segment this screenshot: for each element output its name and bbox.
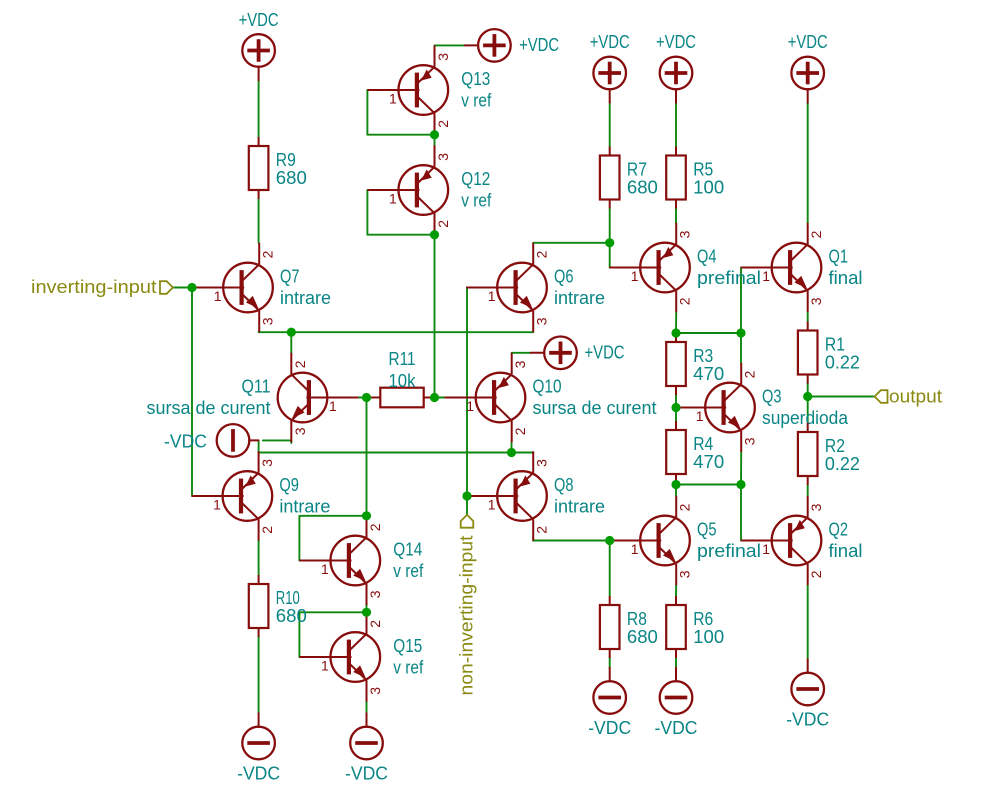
wire Q11 base to R11 (358, 397, 371, 399)
wire inverting-input port to node (173, 287, 192, 289)
Q6 reference and value labels (554, 267, 605, 309)
resistor R6 (666, 596, 686, 658)
Q1 reference and value labels (829, 247, 863, 289)
wire Q15 emitter to -VDC (366, 702, 368, 714)
transistor Q14 (299, 516, 380, 605)
resistor R7 (600, 147, 620, 209)
power symbol -VDC (593, 668, 626, 714)
Q4 pin numbers (631, 230, 693, 305)
svg-text:1: 1 (321, 658, 329, 674)
svg-text:3: 3 (534, 459, 550, 467)
svg-text:R10: R10 (276, 588, 300, 608)
wire Q15 base loop (299, 612, 366, 657)
wire node to Q2 base (740, 485, 742, 541)
svg-text:prefinal: prefinal (697, 541, 761, 561)
svg-text:1: 1 (696, 408, 704, 424)
svg-text:680: 680 (276, 606, 307, 626)
svg-text:Q7: Q7 (280, 267, 300, 287)
wire Q12 base loop (367, 190, 434, 235)
wire Q3 emitter down (740, 452, 742, 484)
wire R6 to -VDC (675, 657, 677, 668)
R4 labels (693, 434, 724, 472)
Q14 reference and value labels (393, 540, 424, 582)
Q12 pin numbers (389, 153, 451, 228)
svg-text:0.22: 0.22 (825, 454, 860, 474)
svg-text:1: 1 (389, 191, 397, 207)
svg-text:+VDC: +VDC (519, 35, 559, 55)
svg-text:Q1: Q1 (829, 247, 849, 267)
svg-text:3: 3 (435, 53, 451, 61)
junction node Q3 emitter (736, 480, 745, 489)
svg-text:3: 3 (534, 317, 550, 325)
wire R11 to Q10 base (433, 397, 445, 399)
svg-text:2: 2 (259, 526, 275, 534)
svg-text:Q15: Q15 (393, 636, 422, 656)
svg-text:v ref: v ref (393, 658, 424, 678)
Q14 pin numbers (321, 523, 383, 598)
svg-text:3: 3 (808, 503, 824, 511)
svg-text:2: 2 (808, 230, 824, 238)
svg-text:+VDC: +VDC (585, 342, 625, 362)
svg-text:3: 3 (292, 427, 308, 435)
svg-text:Q10: Q10 (533, 377, 562, 397)
resistor R8 (600, 596, 620, 658)
R7 labels (627, 160, 658, 198)
svg-text:3: 3 (677, 570, 693, 578)
wire +VDC to R7 (609, 103, 611, 147)
wire R8 to -VDC (609, 657, 611, 668)
wire R7 to node (609, 209, 611, 243)
svg-text:3: 3 (435, 153, 451, 161)
power symbol +VDC (465, 29, 511, 62)
hierarchical port output (875, 390, 888, 403)
junction node R11 right (430, 393, 439, 402)
R1 labels (825, 335, 860, 373)
svg-text:2: 2 (435, 220, 451, 228)
wire Q9 collector to R10 (258, 541, 260, 575)
svg-text:2: 2 (367, 620, 383, 628)
svg-text:final: final (829, 541, 863, 561)
svg-text:2: 2 (808, 570, 824, 578)
svg-text:1: 1 (389, 91, 397, 107)
wire Q6 collector to R7 node (533, 242, 610, 244)
svg-text:1: 1 (214, 288, 222, 304)
Q7 pin numbers (214, 250, 276, 325)
svg-text:2: 2 (292, 360, 308, 368)
wire R11 left node down to Q14 collector (366, 398, 368, 516)
hierarchical port inverting-input (160, 281, 173, 294)
power symbol +VDC (791, 57, 824, 103)
power symbol +VDC (660, 57, 693, 103)
Q9 reference and value labels (279, 475, 330, 517)
R3 labels (693, 346, 724, 384)
wire Q13 base loop (367, 90, 434, 135)
R9 labels (276, 150, 307, 188)
svg-text:intrare: intrare (554, 288, 605, 308)
junction node R4 bottom (671, 480, 680, 489)
wire Q6 base column to Q8 base node (466, 288, 468, 497)
Q1 pin numbers (762, 230, 824, 305)
power symbol +VDC (593, 57, 626, 103)
power symbol -VDC (217, 424, 259, 457)
svg-text:3: 3 (367, 590, 383, 598)
wire Q13 collector to Q12 emitter (434, 135, 436, 146)
Q12 reference and value labels (461, 169, 492, 211)
svg-text:2: 2 (534, 250, 550, 258)
svg-text:-VDC: -VDC (786, 710, 829, 730)
svg-text:R6: R6 (693, 609, 713, 629)
wire Q5 emitter to R6 (675, 585, 677, 596)
wire -VDC to Q11 emitter (263, 440, 292, 443)
svg-text:v ref: v ref (461, 191, 492, 211)
power symbol -VDC (660, 668, 693, 714)
wire node to Q11 collector (290, 332, 292, 353)
wire R10 to -VDC (258, 636, 260, 713)
transistor Q2 (741, 496, 822, 585)
wire Q5 base node to R8 (609, 541, 611, 597)
Q13 pin numbers (389, 53, 451, 128)
svg-text:+VDC: +VDC (656, 32, 696, 52)
svg-text:Q5: Q5 (697, 520, 717, 540)
wire Q2 collector to -VDC (807, 585, 809, 659)
svg-text:2: 2 (435, 120, 451, 128)
svg-text:3: 3 (742, 437, 758, 445)
transistor Q15 (299, 612, 380, 701)
wire output node to port (808, 396, 875, 398)
svg-text:680: 680 (627, 178, 658, 198)
Q5 pin numbers (631, 503, 693, 578)
svg-text:intrare: intrare (279, 497, 330, 517)
R2 labels (825, 436, 860, 474)
transistor Q7 (192, 243, 273, 332)
svg-text:10k: 10k (389, 371, 417, 391)
svg-text:Q2: Q2 (829, 520, 849, 540)
svg-text:inverting-input: inverting-input (31, 277, 157, 297)
wire Q10 collector to node (511, 442, 513, 452)
svg-text:1: 1 (488, 497, 496, 513)
transistor Q13 (367, 45, 448, 134)
svg-text:v ref: v ref (393, 561, 424, 581)
transistor Q1 (741, 223, 822, 312)
wire +VDC to Q1 collector (807, 103, 809, 223)
svg-text:1: 1 (631, 541, 639, 557)
junction node Q5 base (605, 536, 614, 545)
svg-text:Q4: Q4 (697, 247, 717, 267)
resistor R1 (798, 322, 818, 384)
svg-text:1: 1 (213, 497, 221, 513)
resistor R9 (249, 137, 269, 199)
Q4 reference and value labels (697, 247, 761, 289)
svg-text:R1: R1 (825, 335, 845, 355)
svg-text:1: 1 (329, 398, 337, 414)
svg-text:100: 100 (693, 178, 724, 198)
wire Q4 collector to R3 node (675, 312, 677, 333)
junction node R7/Q4 base (605, 238, 614, 247)
svg-text:non-inverting-input: non-inverting-input (457, 536, 477, 696)
junction node Q10 collector (507, 448, 516, 457)
svg-text:R9: R9 (276, 150, 296, 170)
power symbol -VDC (350, 713, 383, 759)
svg-text:Q12: Q12 (461, 169, 490, 189)
wire Q14 base loop (299, 516, 366, 561)
wire R1 to R2 (807, 383, 809, 423)
svg-text:final: final (829, 268, 863, 288)
transistor Q12 (367, 145, 448, 234)
Q3 reference and value labels (762, 387, 849, 429)
svg-text:superdioda: superdioda (762, 408, 849, 428)
transistor Q5 (609, 496, 690, 585)
svg-text:intrare: intrare (554, 497, 605, 517)
transistor Q6 (466, 243, 547, 332)
svg-text:v ref: v ref (461, 91, 492, 111)
svg-text:R5: R5 (693, 160, 713, 180)
transistor Q3 (674, 363, 755, 452)
Q15 pin numbers (321, 620, 383, 695)
power symbol -VDC (791, 659, 824, 705)
wire node to non-inverting-input port (466, 496, 468, 515)
svg-text:1: 1 (762, 268, 770, 284)
junction node Q15 collector (362, 608, 371, 617)
wire R3 to node (675, 395, 677, 408)
wire Q8 collector to Q5 base node (533, 540, 610, 542)
junction node Q13 collector (430, 130, 439, 139)
svg-text:470: 470 (693, 364, 724, 384)
wire R4 node to Q3 emitter node (676, 484, 741, 486)
hierarchical port non-inverting-input (461, 515, 474, 528)
resistor R2 (798, 423, 818, 485)
wire R4 to Q5 collector (675, 483, 677, 496)
svg-text:Q3: Q3 (762, 387, 782, 407)
svg-text:+VDC: +VDC (590, 32, 630, 52)
svg-text:R4: R4 (693, 434, 713, 454)
junction node Q1 base (736, 328, 745, 337)
Q10 reference and value labels (533, 377, 657, 419)
svg-text:Q13: Q13 (461, 69, 490, 89)
svg-text:3: 3 (677, 230, 693, 238)
Q7 reference and value labels (280, 267, 331, 309)
Q8 reference and value labels (554, 475, 605, 517)
wire node to R4 (675, 408, 677, 422)
transistor Q10 (445, 353, 526, 442)
svg-text:3: 3 (808, 297, 824, 305)
transistor Q8 (466, 451, 547, 540)
svg-text:1: 1 (466, 398, 474, 414)
junction node inverting input (187, 283, 196, 292)
svg-text:Q11: Q11 (242, 377, 271, 397)
junction node Q12 collector (430, 230, 439, 239)
svg-text:Q14: Q14 (393, 540, 422, 560)
wire Q13 emitter to +VDC (435, 44, 465, 46)
R8 labels (627, 609, 658, 647)
R6 labels (693, 609, 724, 647)
Q5 reference and value labels (697, 520, 761, 562)
wire -VDC branch down to emitter row (258, 440, 260, 452)
resistor R3 (666, 333, 686, 395)
svg-text:3: 3 (367, 687, 383, 695)
junction node R3/R4 (671, 403, 680, 412)
wire R2 to Q2 emitter (807, 485, 809, 496)
Q13 reference and value labels (461, 69, 492, 111)
svg-text:2: 2 (677, 503, 693, 511)
Q11 reference and value labels (147, 377, 271, 419)
svg-text:2: 2 (742, 370, 758, 378)
svg-text:+VDC: +VDC (788, 32, 828, 52)
wire Q1 base column (740, 268, 742, 363)
Q9 pin numbers (213, 459, 275, 534)
Q15 reference and value labels (393, 636, 424, 678)
Q8 pin numbers (488, 459, 550, 534)
svg-text:3: 3 (259, 459, 275, 467)
transistor Q9 (192, 451, 273, 540)
Q6 pin numbers (488, 250, 550, 325)
junction node non-inverting input (462, 491, 471, 500)
svg-text:-VDC: -VDC (164, 431, 207, 451)
R5 labels (693, 160, 724, 198)
wire Q10 emitter to +VDC (512, 352, 531, 354)
wire Q12 collector down to R11 right node (434, 235, 436, 398)
svg-text:intrare: intrare (280, 288, 331, 308)
junction node Q14 collector (362, 511, 371, 520)
svg-text:R8: R8 (627, 609, 647, 629)
resistor R11 (371, 388, 432, 408)
svg-text:Q6: Q6 (554, 267, 574, 287)
svg-text:-VDC: -VDC (588, 718, 631, 738)
svg-text:1: 1 (631, 268, 639, 284)
wire Q14 emitter to Q15 collector (366, 605, 368, 612)
svg-text:R7: R7 (627, 160, 647, 180)
svg-text:0.22: 0.22 (825, 353, 860, 373)
svg-text:R3: R3 (693, 346, 713, 366)
svg-text:100: 100 (693, 627, 724, 647)
wire Q1 emitter to R1 (807, 312, 809, 321)
svg-text:2: 2 (534, 526, 550, 534)
svg-text:-VDC: -VDC (345, 764, 388, 784)
power symbol +VDC (242, 34, 275, 80)
Q10 pin numbers (466, 360, 528, 435)
wire emitter row to Q10 collector node (259, 452, 512, 454)
wire +VDC to R5 (675, 103, 677, 147)
svg-text:-VDC: -VDC (655, 718, 698, 738)
svg-text:1: 1 (488, 288, 496, 304)
svg-text:1: 1 (321, 561, 329, 577)
wire node to Q1 base column (676, 332, 741, 334)
svg-text:680: 680 (627, 627, 658, 647)
wire Q7 emitter row to Q6 emitter (259, 331, 534, 333)
svg-text:prefinal: prefinal (697, 268, 761, 288)
wire R9 to Q7 collector (258, 199, 260, 243)
power symbol -VDC (242, 713, 275, 759)
transistor Q4 (609, 223, 690, 312)
junction node R3 top (671, 328, 680, 337)
R10 labels (276, 588, 307, 626)
svg-text:sursa de curent: sursa de curent (147, 398, 271, 418)
wire node down to Q4 base (609, 243, 611, 268)
svg-text:Q9: Q9 (279, 475, 299, 495)
wire R5 to Q4 emitter (675, 209, 677, 223)
svg-text:-VDC: -VDC (237, 764, 280, 784)
junction node Q7/Q11 (287, 328, 296, 337)
wire +VDC to R9 (258, 80, 260, 137)
svg-text:2: 2 (260, 250, 276, 258)
svg-text:3: 3 (260, 317, 276, 325)
resistor R4 (666, 421, 686, 483)
wire node to Q8 emitter (512, 452, 534, 454)
resistor R5 (666, 147, 686, 209)
svg-text:output: output (889, 387, 942, 407)
Q3 pin numbers (696, 370, 758, 445)
junction node R11 left (362, 393, 371, 402)
svg-text:680: 680 (276, 168, 307, 188)
svg-text:Q8: Q8 (554, 475, 574, 495)
transistor Q11 (278, 353, 359, 442)
resistor R10 (249, 575, 269, 637)
Q2 pin numbers (762, 503, 824, 578)
svg-text:R2: R2 (825, 436, 845, 456)
wire node to Q9 base (191, 288, 193, 497)
Q11 pin numbers (292, 360, 337, 435)
Q2 reference and value labels (829, 520, 863, 562)
svg-text:2: 2 (677, 297, 693, 305)
svg-text:2: 2 (512, 427, 528, 435)
svg-text:2: 2 (367, 523, 383, 531)
power symbol +VDC (531, 337, 577, 370)
svg-text:1: 1 (762, 541, 770, 557)
svg-text:sursa de curent: sursa de curent (533, 398, 657, 418)
svg-text:3: 3 (512, 360, 528, 368)
R11 labels (389, 349, 417, 391)
svg-text:+VDC: +VDC (239, 10, 279, 30)
svg-text:R11: R11 (389, 349, 416, 369)
svg-text:470: 470 (693, 452, 724, 472)
junction node output (803, 392, 812, 401)
